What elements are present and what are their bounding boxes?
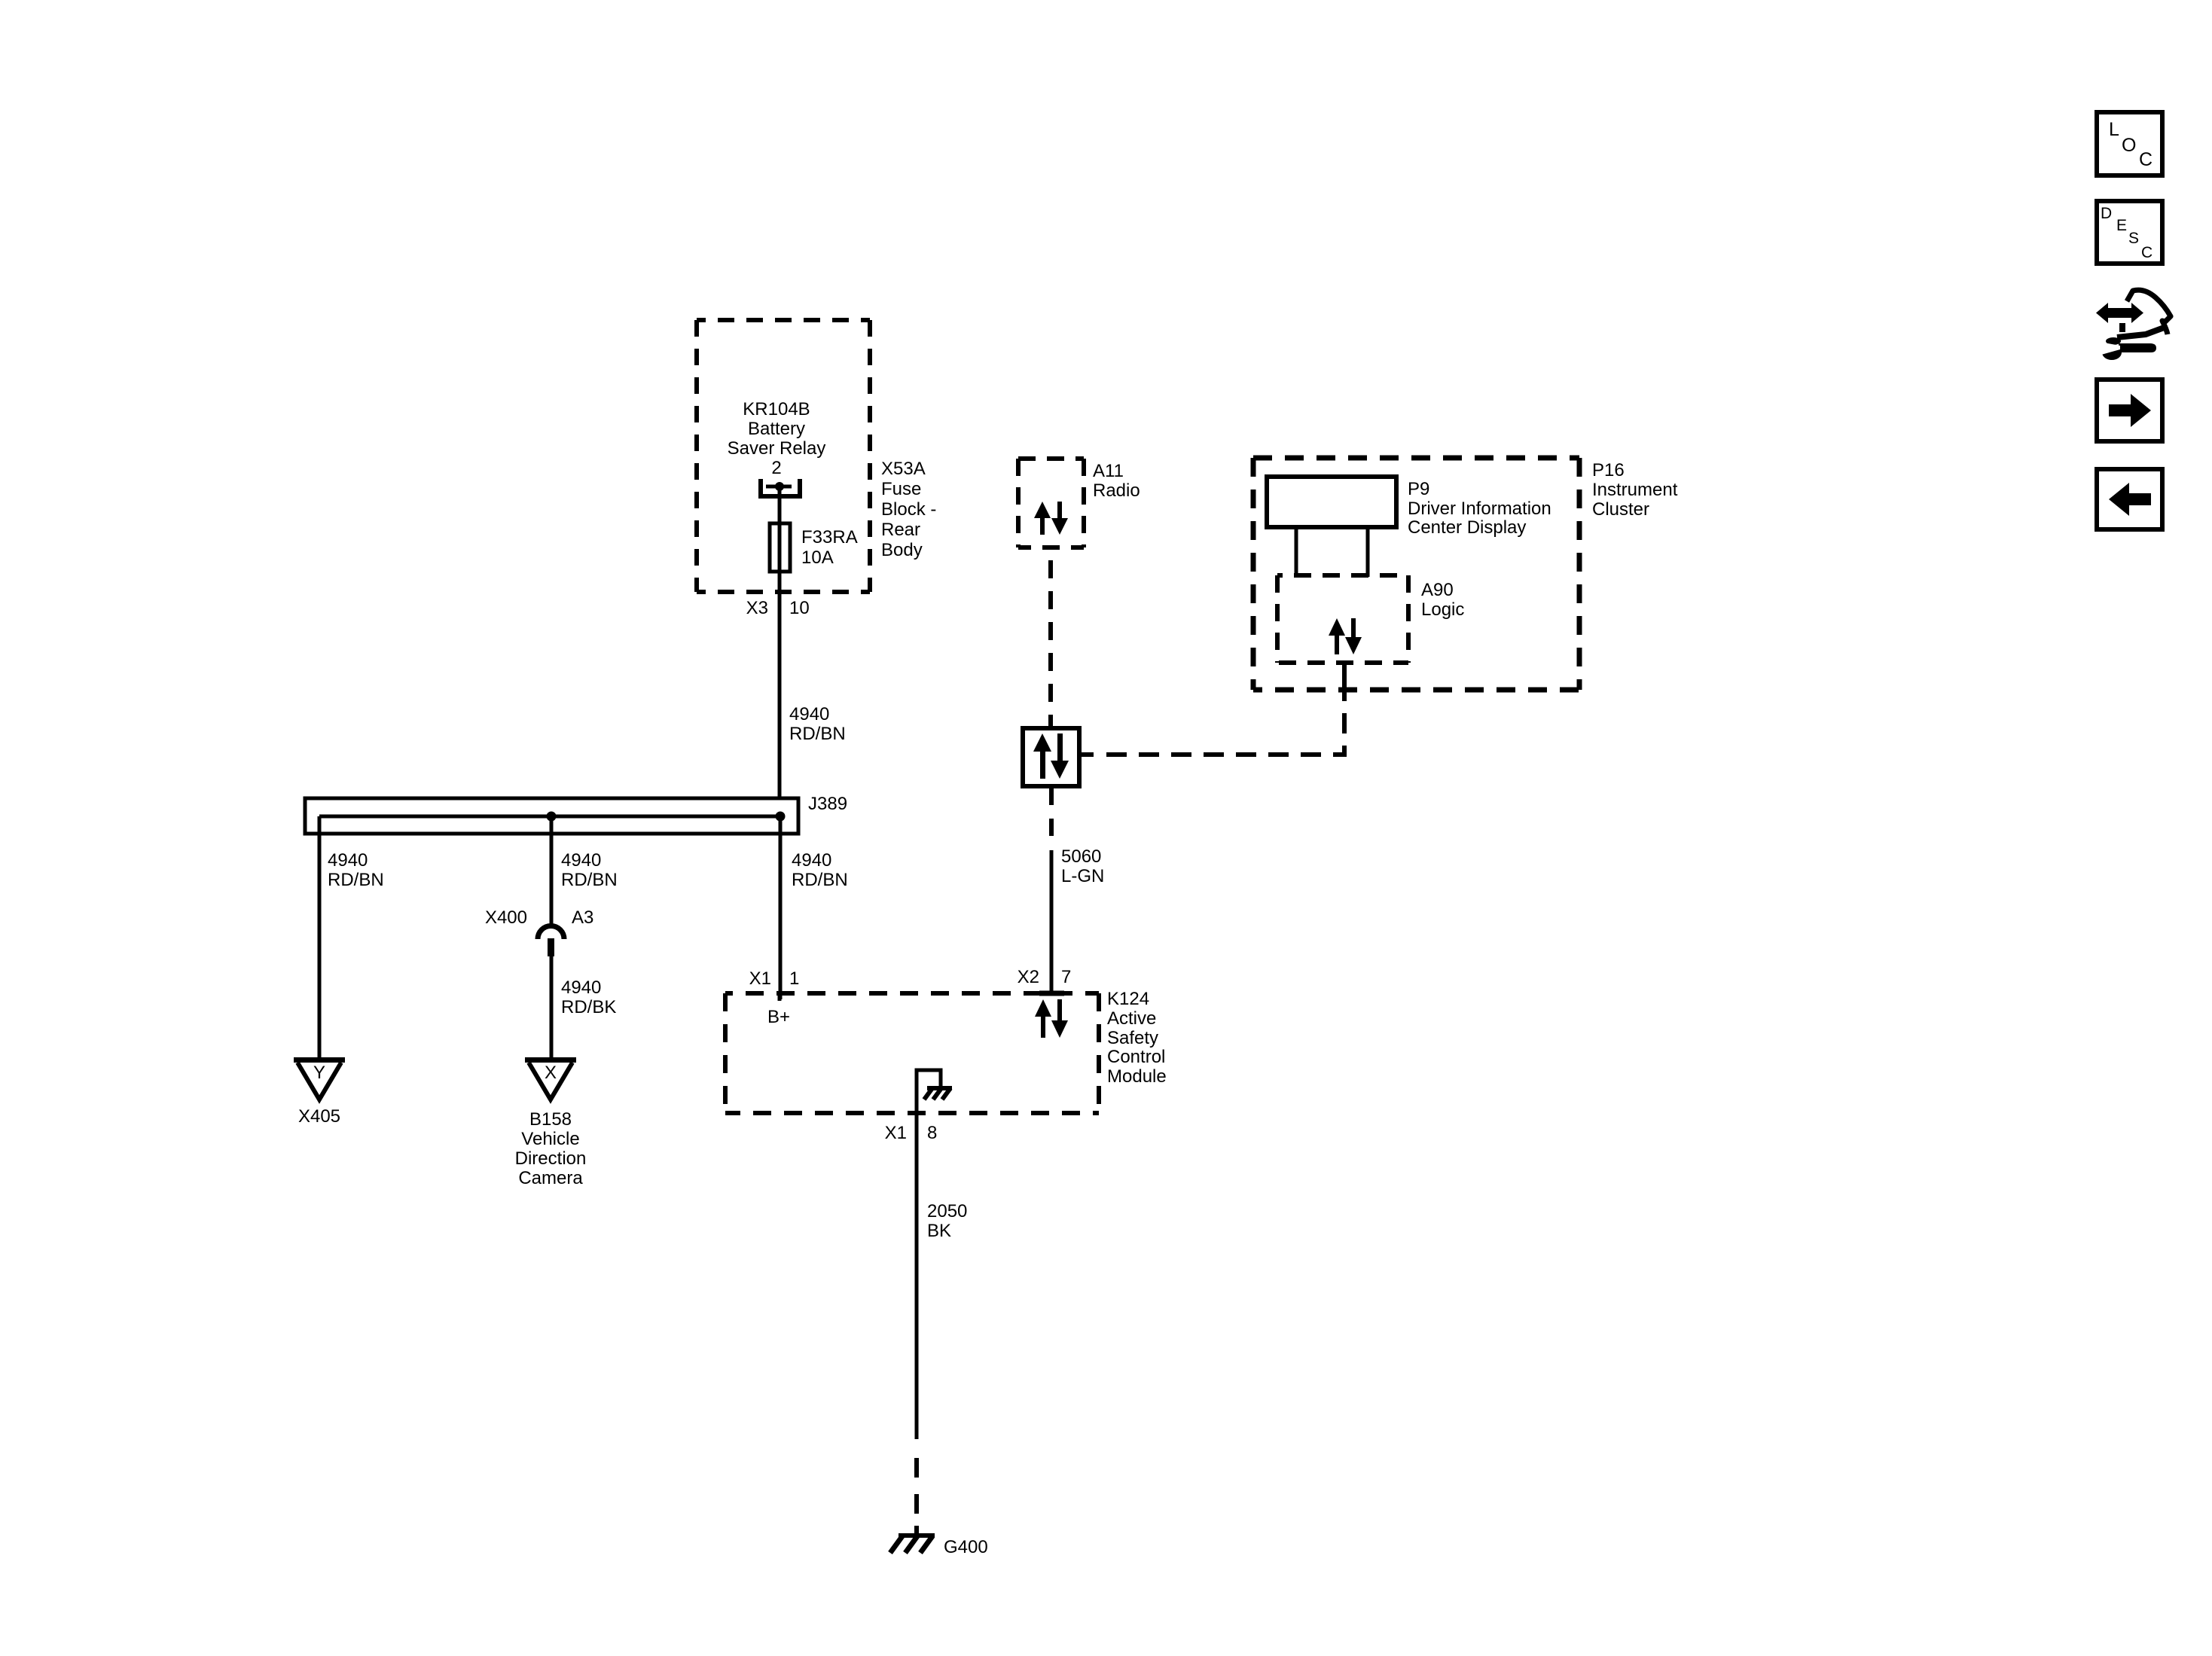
svg-text:4940: 4940 (328, 850, 368, 871)
svg-text:Vehicle: Vehicle (521, 1129, 579, 1149)
svg-text:B158: B158 (529, 1109, 572, 1130)
svg-text:A11: A11 (1093, 461, 1124, 481)
svg-text:G400: G400 (944, 1537, 988, 1557)
svg-text:Center Display: Center Display (1408, 517, 1526, 538)
svg-text:F33RA: F33RA (801, 527, 858, 547)
svg-text:O: O (2122, 135, 2136, 156)
svg-text:J389: J389 (808, 794, 847, 814)
svg-text:Battery: Battery (748, 419, 805, 439)
svg-text:Rear: Rear (881, 520, 920, 540)
svg-text:Block -: Block - (881, 499, 936, 520)
svg-text:Active: Active (1107, 1008, 1156, 1029)
svg-text:X1: X1 (749, 968, 771, 989)
svg-text:1: 1 (789, 968, 799, 989)
svg-text:RD/BN: RD/BN (328, 870, 384, 890)
svg-text:Control: Control (1107, 1047, 1165, 1067)
svg-text:Y: Y (313, 1063, 325, 1083)
svg-text:X3: X3 (746, 598, 768, 618)
svg-text:4940: 4940 (561, 850, 601, 871)
svg-text:RD/BN: RD/BN (789, 724, 846, 744)
svg-text:X53A: X53A (881, 459, 926, 479)
svg-text:KR104B: KR104B (743, 399, 810, 419)
svg-text:4940: 4940 (789, 704, 829, 724)
svg-text:2: 2 (771, 458, 781, 478)
svg-text:Instrument: Instrument (1592, 480, 1678, 500)
svg-text:RD/BN: RD/BN (792, 870, 848, 890)
svg-text:4940: 4940 (792, 850, 831, 871)
svg-text:L: L (2109, 119, 2119, 140)
svg-text:10A: 10A (801, 547, 834, 568)
svg-text:X2: X2 (1018, 967, 1039, 987)
svg-text:Direction: Direction (515, 1148, 587, 1169)
svg-text:X: X (545, 1063, 557, 1083)
svg-text:Radio: Radio (1093, 480, 1140, 501)
svg-text:P16: P16 (1592, 460, 1625, 480)
svg-text:K124: K124 (1107, 989, 1149, 1009)
svg-text:7: 7 (1061, 967, 1071, 987)
svg-text:X400: X400 (485, 907, 527, 928)
svg-text:P9: P9 (1408, 479, 1429, 499)
svg-text:A90: A90 (1421, 580, 1454, 600)
svg-text:X405: X405 (298, 1106, 340, 1127)
svg-text:10: 10 (789, 598, 810, 618)
svg-text:Camera: Camera (518, 1168, 583, 1188)
svg-text:C: C (2139, 149, 2153, 170)
svg-text:5060: 5060 (1061, 846, 1101, 867)
svg-text:Logic: Logic (1421, 599, 1464, 620)
svg-text:Module: Module (1107, 1066, 1167, 1087)
svg-text:Body: Body (881, 540, 923, 560)
svg-text:S: S (2128, 230, 2139, 247)
svg-text:Driver Information: Driver Information (1408, 499, 1551, 519)
svg-text:RD/BK: RD/BK (561, 997, 616, 1017)
svg-text:2050: 2050 (927, 1201, 967, 1221)
svg-text:B+: B+ (767, 1007, 790, 1027)
svg-text:8: 8 (927, 1123, 937, 1143)
svg-text:Cluster: Cluster (1592, 499, 1649, 520)
svg-text:L-GN: L-GN (1061, 866, 1104, 886)
svg-text:A3: A3 (572, 907, 593, 928)
svg-text:X1: X1 (885, 1123, 907, 1143)
svg-text:C: C (2141, 244, 2153, 261)
svg-text:E: E (2116, 217, 2127, 234)
svg-text:Safety: Safety (1107, 1028, 1158, 1048)
svg-text:RD/BN: RD/BN (561, 870, 618, 890)
svg-text:BK: BK (927, 1221, 951, 1241)
svg-text:4940: 4940 (561, 977, 601, 998)
svg-text:Saver Relay: Saver Relay (728, 438, 826, 459)
svg-text:D: D (2101, 205, 2112, 222)
svg-text:Fuse: Fuse (881, 479, 921, 499)
